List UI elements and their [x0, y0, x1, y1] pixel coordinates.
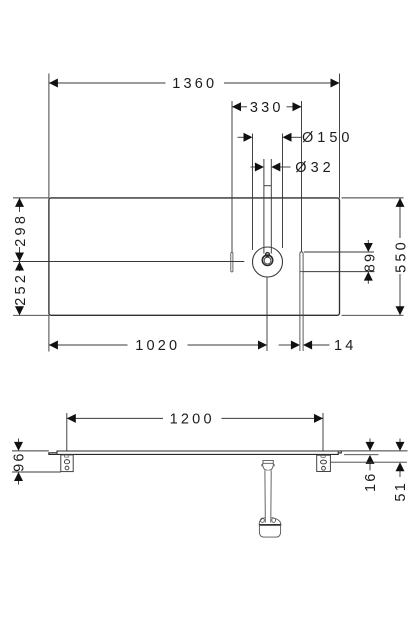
- svg-text:Ø32: Ø32: [295, 160, 334, 176]
- dimension 89: [303, 240, 374, 284]
- svg-text:51: 51: [393, 481, 409, 502]
- trap clamp rings: [261, 518, 265, 522]
- svg-text:96: 96: [12, 451, 28, 472]
- drain pipe: [265, 470, 271, 522]
- left wall bracket: [61, 455, 73, 472]
- console slab (front view): [49, 451, 342, 454]
- svg-text:550: 550: [394, 239, 410, 273]
- overflow slot: [231, 252, 233, 272]
- svg-text:Ø150: Ø150: [302, 130, 353, 146]
- trap cup: [259, 526, 280, 537]
- svg-text:1020: 1020: [135, 338, 180, 354]
- dimension 51: [331, 439, 407, 478]
- svg-text:1360: 1360: [172, 76, 217, 92]
- dimension 96: [12, 439, 61, 485]
- svg-text:252: 252: [13, 272, 29, 306]
- dimension 1360: [49, 74, 340, 198]
- trap bell dome: [259, 517, 281, 524]
- right slot 14x89: [300, 252, 303, 351]
- console outline (top view 1360x550): [49, 198, 340, 315]
- tap hole Ø32 (keyhole): [266, 253, 270, 257]
- dimensions 298 / 252: [13, 198, 49, 315]
- dimension 14: [279, 344, 330, 346]
- svg-text:1200: 1200: [170, 411, 215, 427]
- basin circle Ø150: [253, 247, 283, 277]
- dimension 1200: [67, 413, 323, 451]
- svg-text:330: 330: [250, 100, 284, 116]
- dimension 16: [340, 439, 408, 471]
- trap band: [259, 524, 281, 526]
- dimension Ø32: [251, 159, 291, 254]
- centre leader (298/252 ext line): [13, 261, 244, 263]
- dimension Ø150: [238, 134, 302, 251]
- extension line to 1020 (tap centre): [266, 277, 268, 351]
- dimension 330: [232, 101, 302, 252]
- drain tailpiece nut: [263, 463, 274, 470]
- drain tailpiece flange: [263, 461, 274, 464]
- svg-text:89: 89: [362, 252, 378, 273]
- dimension 1020: [49, 315, 267, 351]
- svg-text:298: 298: [13, 213, 29, 247]
- svg-text:16: 16: [363, 471, 379, 492]
- svg-text:14: 14: [334, 338, 357, 354]
- right wall bracket: [317, 455, 331, 471]
- dimension 550: [342, 198, 404, 315]
